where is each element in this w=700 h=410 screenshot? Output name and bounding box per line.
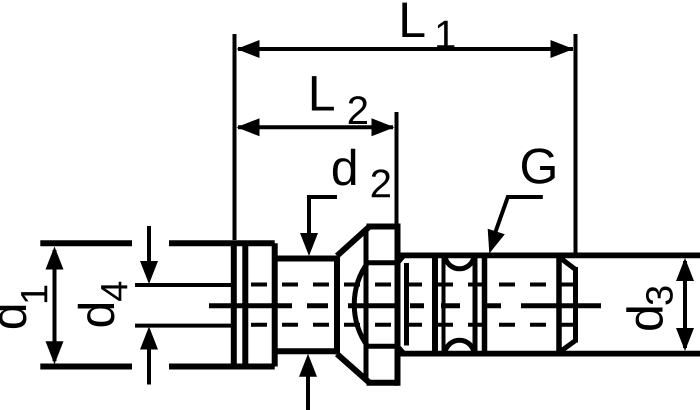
stem: relief vertical: [404, 263, 409, 346]
label d3 (rotated): letter d: [626, 307, 663, 329]
label d2: letter d: [333, 149, 355, 186]
L1: left extension line: [233, 34, 237, 240]
d4: top arrow: [147, 226, 151, 265]
label d4 (rotated): subscript 4: [101, 282, 127, 301]
thread G: end vertical: [556, 255, 562, 353]
groove: bottom arc: [445, 340, 474, 352]
shank d1: bottom outline: [40, 364, 274, 370]
neck d2: top outline: [275, 256, 337, 262]
stem: chamfer top: [398, 255, 405, 262]
label d2: subscript 2: [372, 169, 390, 197]
L1: right arrowhead: [551, 40, 574, 58]
stem: top outline and d3 extension: [400, 252, 700, 258]
head: inner top line: [369, 260, 398, 265]
flange: middle vertical: [242, 243, 248, 366]
L2: left arrowhead: [237, 118, 260, 136]
label L1: letter L: [402, 3, 424, 37]
head: right edge: [395, 224, 401, 386]
thread G: chamfer top: [559, 257, 576, 270]
d2: leader with top arrow: [309, 197, 337, 240]
head: inner bottom line: [369, 344, 398, 349]
d1: dimension arrow shaft: [53, 250, 57, 361]
hidden line: thread minor bottom: [251, 323, 574, 327]
bore d4: top line: [135, 283, 234, 287]
d3: top arrowhead: [676, 258, 694, 281]
groove: right vertical: [473, 255, 478, 353]
shank d1: top outline: [40, 240, 274, 246]
flange: right vertical: [272, 243, 278, 366]
label L2: subscript 2: [349, 96, 367, 124]
cone: small-end vertical: [334, 256, 340, 355]
head: cone-base vertical: [364, 229, 369, 380]
d4: bottom arrow: [147, 348, 151, 385]
d1: top arrowhead: [46, 247, 64, 270]
label L2: letter L: [312, 76, 334, 110]
thread G: start vertical: [482, 255, 488, 353]
flange: left vertical: [231, 243, 237, 366]
L2: dimension line: [238, 125, 393, 129]
bore d4: bottom line: [135, 324, 234, 328]
L2: right arrowhead: [372, 118, 395, 136]
groove: left thin vertical: [442, 255, 446, 353]
hidden line: thread minor top: [251, 283, 574, 287]
center line: [209, 303, 601, 308]
label d1 (rotated): letter d: [0, 306, 26, 328]
label d1 (rotated): subscript 1: [21, 286, 47, 302]
groove: left thick vertical: [432, 255, 438, 353]
L1: left arrowhead: [237, 40, 260, 58]
d1: bottom arrowhead: [46, 341, 64, 364]
label L1: subscript 1: [437, 21, 454, 49]
stem: bottom outline and d3 extension: [400, 351, 700, 357]
head: bottom outline: [367, 380, 398, 386]
thread G: chamfer bottom: [559, 341, 576, 353]
d2: bottom arrow: [306, 370, 310, 410]
groove: top arc: [445, 257, 474, 269]
cone: bottom diagonal: [337, 354, 370, 383]
L2: right extension line: [395, 112, 399, 226]
head: sphere arc: [354, 262, 368, 348]
label d3 (rotated): subscript 3: [646, 287, 673, 305]
G: leader arrow: [494, 197, 543, 236]
stem: chamfer bottom: [398, 346, 405, 353]
L1: dimension line: [238, 47, 573, 51]
label G: [522, 148, 555, 183]
thread G: end face: [573, 267, 578, 343]
neck d2: bottom outline: [275, 348, 337, 354]
d3: dimension arrow shaft: [683, 261, 687, 348]
cone: top diagonal: [337, 227, 370, 256]
L1: right extension line: [574, 34, 578, 255]
head: top outline: [367, 224, 398, 230]
label d4 (rotated): letter d: [78, 304, 115, 326]
d3: bottom arrowhead: [676, 328, 694, 351]
